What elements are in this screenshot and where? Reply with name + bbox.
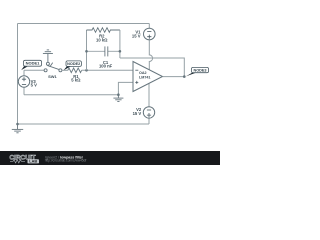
- wire NODE1 to switch: [24, 69, 44, 71]
- wire feedback left vertical: [86, 30, 88, 70]
- svg-text:NODE2: NODE2: [67, 62, 80, 66]
- node label NODE1: [21, 60, 41, 70]
- node junction bottom-left: [16, 123, 19, 126]
- watermark bar: [0, 151, 220, 165]
- svg-text:LM741: LM741: [139, 75, 150, 79]
- logo LAB box: [28, 159, 40, 163]
- svg-text:15 V: 15 V: [132, 34, 141, 39]
- logo resistor squiggle: [10, 160, 25, 163]
- capacitor C1: [87, 46, 120, 56]
- node label NODE2: [64, 61, 82, 70]
- voltage source V2: [143, 83, 154, 118]
- wire feedback right vertical: [119, 30, 121, 58]
- wire op-amp + input to ground: [118, 82, 133, 94]
- node label NODE3: [186, 67, 209, 76]
- svg-text:10 kΩ: 10 kΩ: [96, 37, 108, 42]
- svg-text:SW1: SW1: [48, 74, 57, 79]
- svg-text:15 V: 15 V: [133, 111, 142, 116]
- op-amp OA2: [133, 62, 163, 92]
- ground GND2 above switch: [43, 50, 53, 62]
- resistor R2: [87, 28, 120, 33]
- wire R1 to op-amp inverting input: [82, 69, 133, 71]
- wire V2 bottom lead: [148, 118, 150, 124]
- svg-text:LAB: LAB: [29, 160, 37, 164]
- wire bottom rail: [18, 123, 150, 125]
- wire switch to R1: [62, 69, 68, 71]
- svg-text:100 nF: 100 nF: [99, 64, 113, 69]
- resistor R1: [68, 68, 82, 73]
- svg-text:NODE1: NODE1: [26, 61, 41, 66]
- svg-text:NODE3: NODE3: [193, 68, 206, 72]
- voltage source V3: [18, 70, 29, 94]
- svg-text:http://circuitlab.com/c/ww45df: http://circuitlab.com/c/ww45df: [45, 159, 87, 163]
- V3 value label: [31, 79, 37, 88]
- wire left rail: [17, 24, 19, 125]
- ground GND3: [113, 95, 123, 102]
- voltage source V1: [144, 24, 156, 72]
- wire V3 bottom to ground node: [24, 94, 118, 96]
- node junction feedback left: [85, 69, 88, 72]
- node junction ground mid: [117, 93, 120, 96]
- wire feedback top run to output: [120, 58, 184, 77]
- switch SW1: [44, 62, 62, 72]
- wire op-amp output: [163, 76, 185, 78]
- svg-text:5 V: 5 V: [31, 83, 37, 88]
- svg-text:5 kΩ: 5 kΩ: [71, 78, 81, 83]
- node junction output: [183, 75, 186, 78]
- ground GND1: [12, 124, 23, 133]
- wire top rail: [18, 23, 150, 25]
